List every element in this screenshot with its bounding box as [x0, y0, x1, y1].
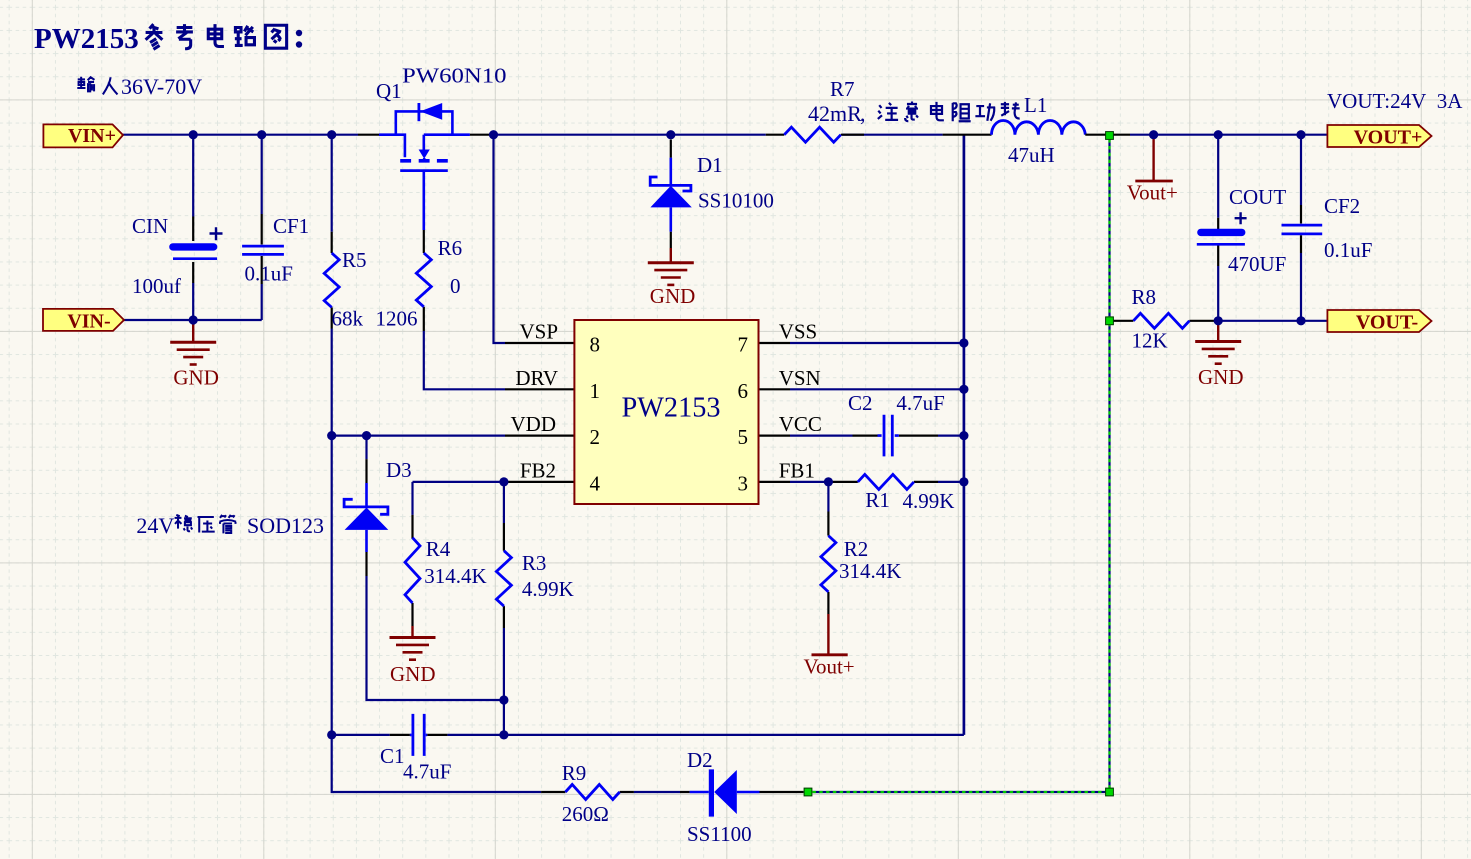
- label input 36V-70V: [77, 74, 202, 99]
- svg-text:12K: 12K: [1132, 329, 1168, 353]
- port VIN-: [43, 309, 124, 331]
- label 4.7uF C2: [896, 391, 944, 415]
- wire COUT leads: [1217, 135, 1219, 321]
- label 0.1uF: [245, 262, 293, 286]
- label R1: [865, 488, 890, 512]
- node D2 green square: [804, 788, 812, 796]
- port VOUT+: [1327, 125, 1431, 147]
- svg-text:Vout+: Vout+: [1127, 181, 1178, 205]
- label VIN-: [67, 311, 110, 333]
- pin 2 VDD stub: [505, 435, 574, 437]
- svg-text:1206: 1206: [376, 307, 418, 331]
- label VOUT+: [1354, 127, 1423, 149]
- pin 1 DRV stub: [505, 388, 574, 390]
- label 4.99K R1: [903, 489, 955, 513]
- wire VIN-: [124, 319, 262, 321]
- label COUT: [1229, 185, 1286, 209]
- label R3: [522, 551, 547, 575]
- svg-text:FB1: FB1: [779, 458, 815, 482]
- resistor R5: [324, 253, 339, 307]
- pin R2 black leads: [827, 512, 829, 615]
- wire R8 to VOUT-: [1214, 320, 1327, 322]
- svg-text:VSN: VSN: [779, 366, 821, 390]
- junction dot VIN- CIN: [189, 315, 198, 324]
- svg-text:VDD: VDD: [511, 412, 557, 436]
- junction dots bottom: [327, 695, 508, 739]
- pin name VSP: [519, 320, 558, 344]
- wire D3 branch: [367, 436, 504, 700]
- svg-text:2: 2: [590, 425, 601, 449]
- label L1: [1024, 93, 1047, 117]
- label R2: [844, 537, 869, 561]
- label 314.4K R2: [839, 559, 901, 583]
- svg-text:PW2153: PW2153: [622, 392, 721, 424]
- label SS10100: [698, 189, 774, 213]
- resistor R8: [1133, 313, 1189, 328]
- label R7: [830, 77, 855, 101]
- svg-text:D1: D1: [697, 153, 723, 177]
- svg-text:24V: 24V: [136, 513, 174, 538]
- pin number 7: [738, 333, 749, 357]
- svg-text:VOUT-: VOUT-: [1356, 312, 1418, 334]
- label VOUT-: [1356, 312, 1418, 334]
- pin number 6: [738, 379, 749, 403]
- svg-text:FB2: FB2: [520, 458, 556, 482]
- label 0: [450, 274, 461, 298]
- svg-text:R4: R4: [426, 537, 451, 561]
- pin Q1 source black lead: [358, 134, 379, 136]
- wire FB2 (R4 to pin 4): [413, 481, 507, 483]
- svg-text:8: 8: [590, 333, 601, 357]
- label VOUT:24V 3A: [1327, 89, 1463, 113]
- pin CIN black leads: [192, 217, 194, 284]
- pin name VSS: [779, 320, 818, 344]
- label 4.99K R3: [522, 577, 574, 601]
- node feedback bottom green square: [1106, 788, 1114, 796]
- svg-text:GND: GND: [650, 284, 696, 308]
- svg-text:260Ω: 260Ω: [562, 802, 609, 826]
- node SW green square: [1106, 132, 1114, 140]
- pin name VCC: [779, 412, 822, 436]
- pin 8 VSP stub: [505, 342, 574, 344]
- pin R1 black leads: [828, 481, 938, 483]
- svg-text:COUT: COUT: [1229, 185, 1286, 209]
- pin number 5: [738, 425, 749, 449]
- svg-text:0.1uF: 0.1uF: [245, 262, 293, 286]
- label R6: [438, 236, 463, 260]
- pin D3 black leads: [365, 459, 367, 576]
- label PW60N10: [402, 64, 507, 88]
- ground symbol below COUT: [1195, 321, 1241, 364]
- wire VCC (pin 5 to C2): [790, 435, 964, 437]
- label GND below R4: [390, 662, 436, 686]
- pin R9 black leads: [541, 791, 634, 793]
- pin R8 black leads: [1113, 320, 1214, 322]
- svg-text:VSP: VSP: [519, 320, 558, 344]
- power Vout+ stub top: [1135, 136, 1173, 181]
- label D1: [697, 153, 723, 177]
- svg-text:R9: R9: [562, 761, 587, 785]
- svg-text:7: 7: [738, 333, 749, 357]
- label R4: [426, 537, 451, 561]
- pin name VDD: [511, 412, 557, 436]
- pin number 2: [590, 425, 601, 449]
- svg-text:47uH: 47uH: [1008, 143, 1055, 167]
- pin 3 FB1 stub: [759, 481, 791, 483]
- svg-text:GND: GND: [390, 662, 436, 686]
- junction dots VOUT-: [1214, 316, 1306, 325]
- label 260 ohm: [562, 802, 609, 826]
- svg-text:SS1100: SS1100: [687, 822, 752, 846]
- pin D2 black leads: [680, 791, 804, 793]
- label CF2: [1324, 194, 1360, 218]
- wire VDD (rail to pin 2): [332, 435, 505, 437]
- label 12K: [1132, 329, 1168, 353]
- wire C1 (VDD to VSS): [332, 734, 964, 736]
- resistor R3: [496, 551, 511, 606]
- capacitor CIN electrolytic: [173, 247, 217, 259]
- inductor L1: [992, 120, 1086, 134]
- svg-text:314.4K: 314.4K: [424, 564, 486, 588]
- transistor Q1: [379, 103, 470, 230]
- junction dots VDD: [327, 431, 371, 440]
- svg-text:R5: R5: [342, 248, 367, 272]
- ground symbol below D1: [648, 248, 694, 285]
- svg-text:C2: C2: [848, 391, 873, 415]
- svg-text:VOUT:24V 3A: VOUT:24V 3A: [1327, 89, 1463, 113]
- svg-text:5: 5: [738, 425, 749, 449]
- svg-text:C1: C1: [380, 744, 405, 768]
- wire VSN (pin 6 to rail): [790, 388, 964, 390]
- ground symbol below CIN (VIN-): [170, 320, 216, 365]
- resistor R6: [416, 253, 431, 307]
- label 0.1uF right: [1324, 238, 1372, 262]
- label 470UF: [1228, 252, 1286, 276]
- svg-text:VIN+: VIN+: [68, 125, 116, 147]
- resistor R1: [858, 474, 914, 489]
- pin L1 black leads: [1085, 134, 1130, 136]
- label GND below D1: [650, 284, 696, 308]
- wire CIN leads: [192, 135, 194, 320]
- IC U1 PW2153 body: [574, 320, 758, 504]
- svg-text:,: ,: [860, 101, 866, 126]
- label CIN: [132, 214, 168, 238]
- wire R2 top: [827, 482, 829, 512]
- diode D1: [650, 158, 692, 232]
- label 100uf: [132, 274, 181, 298]
- svg-text:3: 3: [738, 471, 749, 495]
- label zener note 24V SOD123: [136, 513, 324, 538]
- svg-text:100uf: 100uf: [132, 274, 181, 298]
- svg-text:R3: R3: [522, 551, 547, 575]
- label C2: [848, 391, 873, 415]
- wire VSP (top rail to pin 8): [494, 135, 506, 343]
- wire VSS (pin 7 to rail): [790, 342, 964, 344]
- svg-text:DRV: DRV: [515, 366, 558, 390]
- resistor R2: [821, 536, 836, 592]
- zener diode D3: [344, 483, 388, 552]
- label GND below CIN: [173, 365, 219, 389]
- capacitor C2: [878, 415, 899, 457]
- pin R4 black leads: [411, 515, 413, 626]
- pin number 8: [590, 333, 601, 357]
- svg-text:GND: GND: [1198, 365, 1244, 389]
- capacitor C1: [410, 714, 427, 756]
- pin CF2 black leads: [1300, 205, 1302, 253]
- junction dots FB: [499, 477, 833, 486]
- pin D1 black leads: [670, 140, 672, 249]
- wire CF2 leads: [1300, 135, 1302, 321]
- svg-text:VIN-: VIN-: [67, 311, 110, 333]
- svg-text:4: 4: [590, 471, 601, 495]
- svg-text:CIN: CIN: [132, 214, 168, 238]
- svg-text:4.99K: 4.99K: [903, 489, 955, 513]
- label C1: [380, 744, 405, 768]
- wire FB1 (pin 3 to R1): [790, 481, 964, 483]
- svg-text:42mR: 42mR: [808, 101, 862, 126]
- svg-text:0.1uF: 0.1uF: [1324, 238, 1372, 262]
- svg-text:4.7uF: 4.7uF: [896, 391, 944, 415]
- svg-text:VCC: VCC: [779, 412, 822, 436]
- label R5: [342, 248, 367, 272]
- svg-text:D2: D2: [687, 748, 713, 772]
- wire VIN+ top rail: [123, 134, 358, 136]
- label Vout+ top: [1127, 181, 1178, 205]
- port VIN+: [43, 124, 123, 147]
- pin 7 VSS stub: [759, 342, 791, 344]
- label CIN plus sign: [210, 227, 223, 240]
- resistor R9: [565, 785, 619, 800]
- label 68k 1206: [332, 307, 418, 331]
- port VOUT-: [1327, 310, 1431, 332]
- pin 4 FB2 stub: [506, 481, 574, 483]
- label Vout+ bottom: [804, 655, 855, 679]
- capacitor CF1: [242, 246, 284, 254]
- label VIN+: [68, 125, 116, 147]
- svg-text:L1: L1: [1024, 93, 1047, 117]
- label 4.7uF C1: [403, 760, 451, 784]
- svg-text:36V-70V: 36V-70V: [121, 74, 202, 99]
- svg-text:SS10100: SS10100: [698, 189, 774, 213]
- wire R9 net (VDD rail to R9): [634, 791, 680, 793]
- wire VOUT+ top right: [1130, 134, 1327, 136]
- svg-text:GND: GND: [173, 365, 219, 389]
- svg-text:SOD123: SOD123: [247, 513, 324, 538]
- wire output feedback net (dashed green selection): [813, 139, 1110, 792]
- label R8: [1132, 285, 1157, 309]
- svg-text:VOUT+: VOUT+: [1354, 127, 1423, 149]
- svg-text:6: 6: [738, 379, 749, 403]
- pin name FB2: [520, 458, 556, 482]
- pin 5 VCC stub: [759, 435, 791, 437]
- pin R6 black leads: [423, 230, 425, 331]
- svg-text:CF2: CF2: [1324, 194, 1360, 218]
- svg-text:314.4K: 314.4K: [839, 559, 901, 583]
- svg-text:1: 1: [590, 379, 601, 403]
- svg-text:68k: 68k: [332, 307, 364, 331]
- pin R3 black leads: [503, 523, 505, 628]
- label Q1: [376, 79, 402, 103]
- svg-text:PW60N10: PW60N10: [402, 64, 507, 88]
- pin Q1 drain black lead: [470, 134, 492, 136]
- svg-text:Vout+: Vout+: [804, 655, 855, 679]
- svg-text:Q1: Q1: [376, 79, 402, 103]
- label D3: [386, 458, 412, 482]
- pin R5 black leads: [331, 232, 333, 329]
- resistor R7: [784, 127, 841, 142]
- junction dots VSS rail: [959, 338, 968, 486]
- svg-text:4.7uF: 4.7uF: [403, 760, 451, 784]
- svg-text:R2: R2: [844, 537, 869, 561]
- title PW2153 reference circuit: [34, 23, 302, 55]
- ground symbol below R4: [390, 626, 436, 660]
- label COUT plus sign: [1235, 212, 1247, 224]
- pin CF1 black leads: [261, 214, 263, 284]
- label 42mR note: [808, 101, 1020, 126]
- label SS1100: [687, 822, 752, 846]
- label R9: [562, 761, 587, 785]
- label PW2153 inside IC: [622, 392, 721, 424]
- label 47uH: [1008, 143, 1055, 167]
- wire top mid (Q1 drain to R7): [492, 134, 943, 136]
- diode D2: [690, 769, 760, 816]
- wire DRV (gate to pin 1): [424, 331, 505, 389]
- svg-text:D3: D3: [386, 458, 412, 482]
- label GND below COUT: [1198, 365, 1244, 389]
- wire R3 verticals: [503, 482, 505, 735]
- pin number 3: [738, 471, 749, 495]
- svg-text:470UF: 470UF: [1228, 252, 1286, 276]
- svg-text:R6: R6: [438, 236, 463, 260]
- wire R5 VDD rail vertical: [332, 135, 541, 792]
- wire R4 top: [411, 482, 413, 515]
- svg-text:R8: R8: [1132, 285, 1157, 309]
- pin number 1: [590, 379, 601, 403]
- label CF1: [273, 214, 309, 238]
- svg-text:VSS: VSS: [779, 320, 818, 344]
- capacitor CF2: [1282, 225, 1323, 234]
- node R8 green square: [1106, 317, 1114, 325]
- pin COUT black leads: [1217, 218, 1219, 266]
- svg-text:R7: R7: [830, 77, 855, 101]
- label 314.4K R4: [424, 564, 486, 588]
- wire green dash overlay: [813, 139, 1110, 792]
- svg-text:R1: R1: [865, 488, 890, 512]
- wire CF1 leads: [261, 135, 263, 320]
- resistor R4: [405, 538, 420, 603]
- label D2: [687, 748, 713, 772]
- capacitor COUT electrolytic: [1197, 232, 1245, 244]
- pin 6 VSN stub: [759, 388, 791, 390]
- pin name DRV: [515, 366, 558, 390]
- svg-text:PW2153: PW2153: [34, 23, 139, 55]
- pin name FB1: [779, 458, 815, 482]
- pin C1 black leads: [390, 734, 448, 736]
- svg-text:4.99K: 4.99K: [522, 577, 574, 601]
- power Vout+ under R2: [812, 614, 848, 655]
- svg-text:0: 0: [450, 274, 461, 298]
- wire SW node to L1 and VSS rail tee: [963, 135, 966, 735]
- pin R7 black leads: [766, 134, 992, 136]
- junction dots top rail: [189, 130, 1306, 139]
- pin number 4: [590, 471, 601, 495]
- pin name VSN: [779, 366, 821, 390]
- svg-text:CF1: CF1: [273, 214, 309, 238]
- pin C2 black leads: [853, 435, 939, 437]
